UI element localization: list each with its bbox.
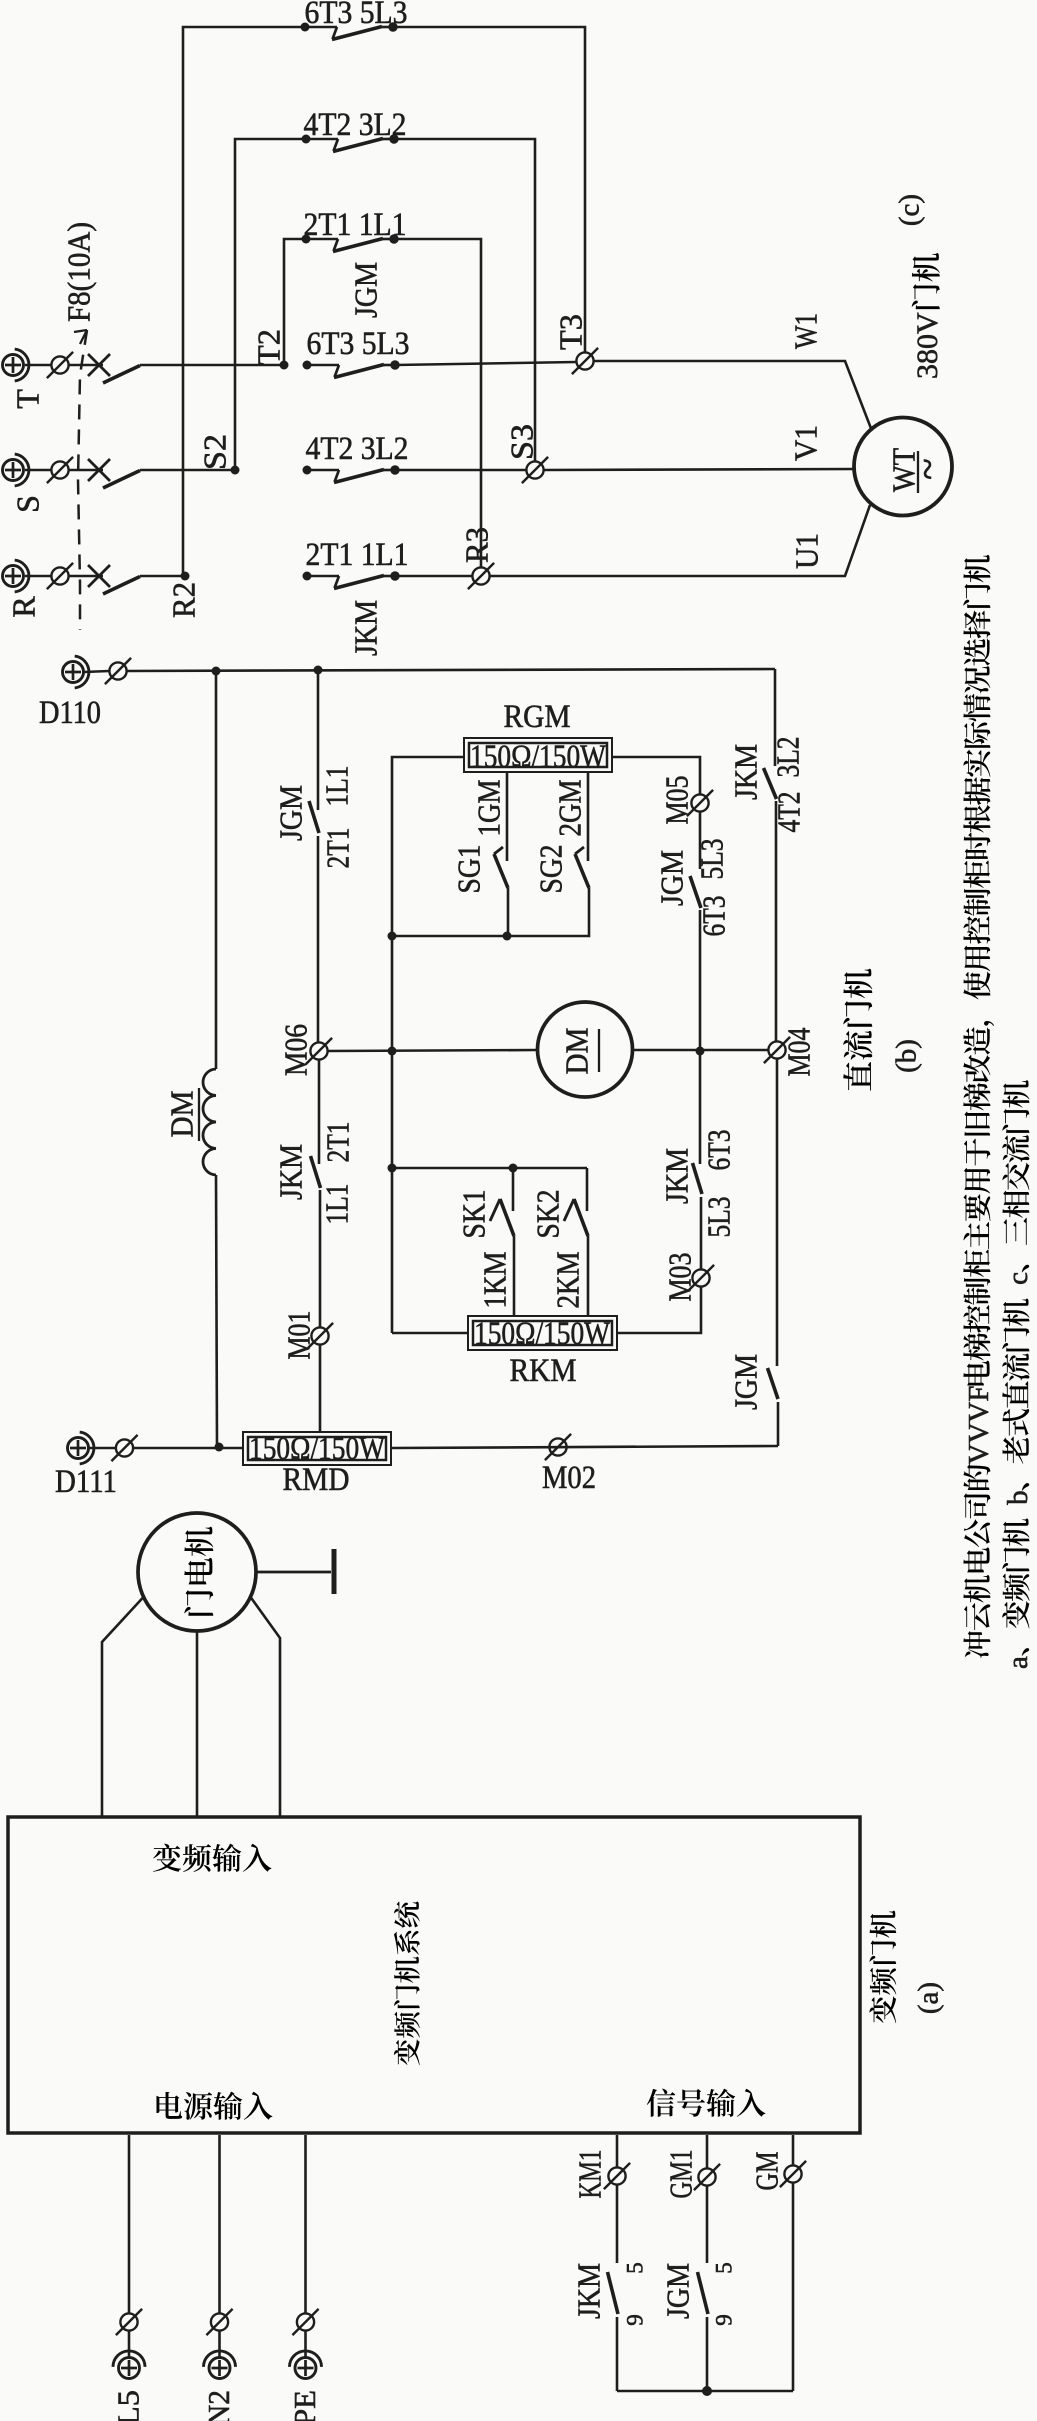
label 2T1 1L1 loop3 [304, 207, 407, 243]
wire [25, 364, 51, 367]
label RMD [283, 1462, 350, 1498]
wire D110 bus [84, 671, 109, 672]
label JGM sig [660, 2263, 696, 2319]
svg-text:S: S [10, 495, 46, 513]
svg-text:U1: U1 [789, 533, 825, 569]
label 5 b [712, 2262, 737, 2274]
label system [394, 1902, 420, 2066]
wire KM1 [616, 2135, 619, 2167]
svg-text:M04: M04 [781, 1028, 817, 1077]
label JKM right [728, 744, 764, 800]
node [388, 932, 397, 941]
terminal GM [780, 2161, 806, 2187]
label JGM loop3 [348, 262, 384, 318]
label 4T2 [771, 792, 807, 833]
svg-text:5: 5 [623, 2262, 648, 2274]
svg-text:(b): (b) [891, 1039, 923, 1073]
svg-text:5L3: 5L3 [701, 1197, 737, 1238]
svg-text:1GM: 1GM [471, 780, 507, 837]
label DC door machine [843, 969, 872, 1091]
caption line2 [1002, 1080, 1034, 1669]
underline WT [917, 451, 919, 493]
svg-text:M01: M01 [281, 1311, 317, 1360]
svg-text:T3: T3 [553, 314, 589, 350]
wire bottom bus R [391, 1446, 778, 1448]
wire lead right [251, 1597, 281, 1817]
svg-text:R: R [6, 596, 42, 618]
wire left vert low [216, 1175, 217, 1447]
label (b) [891, 1039, 923, 1073]
svg-text:2KM: 2KM [550, 1252, 586, 1309]
svg-text:6T3 5L3: 6T3 5L3 [307, 326, 410, 362]
wire [25, 575, 51, 578]
wire [317, 836, 320, 1043]
terminal R3 [468, 563, 494, 589]
node [314, 666, 323, 675]
wire bottom bus L [134, 1447, 243, 1450]
node [215, 1443, 224, 1452]
terminal slash L5 [116, 2309, 142, 2335]
wire L5 [128, 2135, 131, 2313]
label xinhao shuru [647, 2089, 766, 2117]
linkage F8 dashed [78, 330, 87, 630]
svg-text:D110: D110 [39, 695, 101, 731]
svg-text:6T3: 6T3 [701, 1130, 737, 1171]
svg-text:2GM: 2GM [552, 780, 588, 837]
wire [616, 2317, 619, 2391]
label door motor [184, 1527, 213, 1616]
terminal M02 [545, 1434, 571, 1460]
node [388, 1164, 397, 1173]
breaker lever [103, 577, 140, 595]
wire signal rail [617, 2390, 793, 2393]
contact JGM blade bot [768, 1368, 779, 1399]
wire GM [792, 2135, 795, 2165]
svg-text:JGM: JGM [273, 785, 309, 841]
label S3 [504, 424, 540, 460]
svg-text:3L2: 3L2 [770, 737, 806, 778]
terminal R [3, 560, 29, 592]
label M04 [781, 1028, 817, 1077]
shaft bar [332, 1549, 337, 1594]
label V1 [788, 425, 824, 461]
label 6T3 mid [696, 896, 732, 937]
svg-text:M05: M05 [659, 776, 695, 825]
label bianpin menji [869, 1911, 896, 2023]
svg-text:JGM: JGM [728, 1354, 764, 1410]
node S2 [231, 466, 240, 475]
contact JGM blade mid [690, 876, 701, 908]
contact JKM blade [311, 1156, 321, 1188]
wire [706, 2317, 709, 2391]
wire [699, 812, 702, 869]
wire PE [304, 2135, 307, 2313]
label U1 [789, 533, 825, 569]
wire loop3b [394, 239, 481, 567]
svg-text:4T2 3L2: 4T2 3L2 [304, 107, 407, 143]
wire loop1 [183, 27, 305, 576]
contact SG1 [494, 847, 508, 888]
wire row S [140, 469, 235, 472]
label GM1 [663, 2150, 699, 2199]
motor DM [538, 1002, 633, 1097]
contact JKM blade low [693, 1163, 703, 1194]
terminal slash N2 [206, 2309, 232, 2335]
contact 4T2-3L2 row S [303, 465, 400, 482]
svg-text:c: c [1002, 1272, 1034, 1299]
wire SG rail [392, 888, 589, 936]
label 2KM [550, 1252, 586, 1309]
wire [395, 575, 472, 578]
label R3 [459, 527, 495, 563]
wire [395, 469, 526, 472]
label GM [749, 2152, 785, 2191]
svg-text:RMD: RMD [283, 1462, 350, 1498]
label JKM [273, 1144, 309, 1200]
svg-text:L5: L5 [111, 2390, 146, 2421]
label JKM sig [571, 2263, 607, 2319]
label dianyuan shuru [156, 2092, 272, 2120]
label 4T2 3L2 rowS [306, 431, 409, 467]
box VVVF system [8, 1817, 860, 2133]
wire row R [140, 575, 185, 578]
contact JKM blade sig [608, 2272, 619, 2314]
contact SG2 [575, 847, 589, 888]
label M03 [662, 1253, 698, 1302]
wire RGM right [612, 757, 700, 794]
svg-text:4T2 3L2: 4T2 3L2 [306, 431, 409, 467]
svg-text:RKM: RKM [510, 1353, 577, 1389]
terminal slash [47, 563, 73, 589]
label PE [287, 2390, 322, 2421]
svg-text:SG2: SG2 [533, 845, 569, 894]
label N2 [201, 2390, 236, 2421]
svg-text:2T1: 2T1 [320, 828, 356, 869]
terminal slash [47, 352, 73, 378]
terminal M06 [306, 1038, 332, 1064]
label D110 [39, 695, 101, 731]
label M06 [278, 1024, 314, 1076]
label 1L1 [319, 766, 355, 807]
wire RGM left [392, 757, 464, 1333]
wire [69, 575, 103, 578]
wire top bus [127, 669, 775, 671]
label 1GM [471, 780, 507, 837]
wire [69, 364, 103, 367]
label 5L3 low [701, 1197, 737, 1238]
svg-text:380V: 380V [911, 312, 944, 379]
wire [775, 801, 778, 1041]
terminal M01 [307, 1323, 333, 1349]
svg-text:1L1: 1L1 [319, 1184, 355, 1225]
svg-text:GM1: GM1 [663, 2150, 699, 2199]
wire DM line L [328, 1050, 537, 1051]
svg-text:5L3: 5L3 [694, 839, 730, 880]
wire [89, 1447, 115, 1450]
terminal slash D111 [111, 1435, 137, 1461]
wire lead left [102, 1597, 144, 1817]
arrow to F8 [74, 330, 87, 344]
label JKM rowR [348, 600, 384, 656]
wire loop2b [394, 139, 535, 461]
svg-text:R2: R2 [166, 582, 202, 618]
svg-text:JGM: JGM [660, 2263, 696, 2319]
label RKM value [474, 1316, 611, 1352]
breaker lever [103, 366, 140, 384]
label T3 [553, 314, 589, 350]
svg-text:VVVF: VVVF [963, 1386, 995, 1465]
motor WT [854, 418, 952, 516]
wire [318, 1060, 321, 1164]
breaker contact X [88, 565, 110, 587]
svg-text:6T3 5L3: 6T3 5L3 [305, 0, 408, 31]
label WT [886, 448, 922, 492]
svg-text:~: ~ [905, 458, 950, 480]
terminal M04 [764, 1037, 790, 1063]
terminal slash PE [292, 2309, 318, 2335]
node T2 [280, 361, 289, 370]
label RKM [510, 1353, 577, 1389]
svg-text:V1: V1 [788, 425, 824, 461]
wire SK2 lead [586, 1168, 589, 1211]
label RMD value [249, 1431, 386, 1467]
label JGM mid [654, 850, 690, 906]
label JGM bot [728, 1354, 764, 1410]
label T [10, 389, 46, 409]
breaker contact X [88, 459, 110, 481]
contact JGM blade [309, 801, 319, 833]
label F8(10A) [61, 222, 97, 322]
svg-text:M06: M06 [278, 1024, 314, 1076]
label DM [559, 1028, 595, 1075]
label 1KM [477, 1252, 513, 1309]
svg-text:DM: DM [164, 1091, 200, 1138]
wire right vert top [774, 669, 777, 766]
svg-text:GM: GM [749, 2152, 785, 2191]
node [212, 667, 221, 676]
contact 6T3-5L3 loop1 [301, 22, 398, 39]
label 4T2 3L2 loop2 [304, 107, 407, 143]
svg-text:JKM: JKM [659, 1148, 695, 1204]
svg-text:T2: T2 [251, 329, 287, 365]
wire [792, 2183, 795, 2391]
contact JKM blade right [764, 768, 777, 799]
terminal PE [290, 2351, 322, 2379]
svg-text:KM1: KM1 [572, 2150, 608, 2199]
contact JGM blade sig [698, 2272, 709, 2314]
label W1 [788, 313, 824, 349]
svg-text:W1: W1 [788, 313, 824, 349]
label 2T1 [320, 828, 356, 869]
label SK1 [456, 1190, 492, 1239]
label R2 [166, 582, 202, 618]
resistor RKM box [468, 1316, 617, 1350]
terminal L5 [113, 2351, 145, 2379]
wire RKM left [392, 1332, 468, 1335]
wire [319, 1190, 322, 1327]
label 2T1 b [320, 1122, 356, 1163]
breaker lever [103, 471, 140, 489]
svg-text:JKM: JKM [348, 600, 384, 656]
svg-text:S2: S2 [197, 434, 233, 470]
terminal T [3, 349, 29, 381]
wire loop3 [284, 239, 306, 365]
label 9 a [623, 2314, 648, 2326]
wire GM1 [706, 2135, 709, 2168]
label 6T3 5L3 rowT [307, 326, 410, 362]
svg-text:N2: N2 [201, 2390, 236, 2421]
terminal KM1 [604, 2163, 630, 2189]
node [696, 1047, 705, 1056]
label JGM [273, 785, 309, 841]
shaft [256, 1571, 331, 1574]
label 9 b [712, 2314, 737, 2326]
svg-text:PE: PE [287, 2390, 322, 2421]
contact JGM 2T1-1L1 loop3 [302, 234, 399, 251]
wire left vert [215, 671, 218, 1069]
svg-text:F8(10A): F8(10A) [61, 222, 97, 322]
wire N2 [218, 2135, 221, 2313]
label 5 a [623, 2262, 648, 2274]
wire [776, 1059, 779, 1366]
svg-text:9: 9 [623, 2314, 648, 2326]
terminal slash [47, 457, 73, 483]
terminal D111 [68, 1432, 94, 1464]
label 6T3 low [701, 1130, 737, 1171]
contact JKM 2T1-1L1 row R [303, 571, 400, 588]
wire U1 [490, 505, 870, 576]
svg-text:1KM: 1KM [477, 1252, 513, 1309]
label 2T1 1L1 rowR [306, 537, 409, 573]
svg-text:JKM: JKM [273, 1144, 309, 1200]
svg-text:SG1: SG1 [451, 845, 487, 894]
terminal S [3, 454, 29, 486]
label DM coil [164, 1091, 200, 1138]
wire [617, 1287, 701, 1333]
wire [699, 910, 702, 1051]
svg-text:JGM: JGM [654, 850, 690, 906]
wire SK rail [392, 1167, 587, 1170]
node [509, 1164, 518, 1173]
wire [700, 1197, 703, 1269]
svg-text:SK1: SK1 [456, 1190, 492, 1239]
terminal slash D110 [105, 658, 131, 684]
underline DM [598, 1029, 600, 1072]
terminal T3 [572, 348, 598, 374]
wire [699, 1051, 702, 1164]
svg-text:JKM: JKM [728, 744, 764, 800]
contact SK2 [564, 1199, 588, 1236]
svg-text:SK2: SK2 [530, 1190, 566, 1239]
label RGM [504, 699, 571, 735]
label KM1 [572, 2150, 608, 2199]
resistor RGM box [464, 738, 612, 772]
svg-text:150Ω/150W: 150Ω/150W [470, 739, 607, 775]
wire V1 [544, 469, 856, 470]
svg-text:2T1: 2T1 [320, 1122, 356, 1163]
label M01 [281, 1311, 317, 1360]
label S2 [197, 434, 233, 470]
label L5 [111, 2390, 146, 2421]
label 2GM [552, 780, 588, 837]
motor door [138, 1513, 256, 1631]
wire [513, 1236, 516, 1317]
contact SK1 [490, 1199, 514, 1236]
wire [319, 1345, 322, 1432]
label D111 [55, 1464, 117, 1500]
terminal M03 [688, 1265, 714, 1291]
label 3L2 [770, 737, 806, 778]
label R [6, 596, 42, 618]
contact JGM 6T3-5L3 row T [303, 360, 400, 377]
wire [587, 1236, 590, 1317]
terminal M05 [687, 790, 713, 816]
label bianpin shuru [153, 1844, 272, 1872]
label 380V men-ji [911, 253, 944, 379]
terminal D110 [63, 656, 89, 688]
svg-text:a: a [1002, 1656, 1034, 1669]
wire [777, 1402, 780, 1446]
label JKM low [659, 1148, 695, 1204]
wire SG1 lead [506, 772, 509, 861]
label SG2 [533, 845, 569, 894]
svg-text:1L1: 1L1 [319, 766, 355, 807]
wire [69, 469, 103, 472]
node [388, 1047, 397, 1056]
wire [317, 670, 320, 810]
label SK2 [530, 1190, 566, 1239]
label SG1 [451, 845, 487, 894]
svg-text:b: b [1002, 1490, 1034, 1519]
node [702, 2386, 712, 2396]
wire [616, 2185, 619, 2263]
terminal N2 [204, 2351, 236, 2379]
wire [395, 362, 576, 365]
inductor DM [203, 1069, 216, 1175]
wire PE b [304, 2331, 307, 2357]
node R2 [181, 572, 190, 581]
svg-text:(c): (c) [894, 194, 926, 226]
wire SG2 lead [587, 772, 590, 861]
resistor RMD box [243, 1432, 391, 1465]
wire loop2 [235, 139, 306, 470]
svg-text:5: 5 [712, 2262, 737, 2274]
label 1L1 b [319, 1184, 355, 1225]
wire [507, 888, 510, 936]
svg-text:R3: R3 [459, 527, 495, 563]
label 6T3 5L3 loop1 [305, 0, 408, 31]
wire L5 b [128, 2331, 131, 2357]
terminal S3 [522, 457, 548, 483]
svg-text:2T1 1L1: 2T1 1L1 [306, 537, 409, 573]
terminal GM1 [694, 2164, 720, 2190]
svg-text:JGM: JGM [348, 262, 384, 318]
svg-text:150Ω/150W: 150Ω/150W [474, 1316, 611, 1352]
svg-text:DM: DM [559, 1028, 595, 1075]
label tilde [905, 458, 950, 480]
wire [706, 2186, 709, 2263]
wire N2 b [218, 2331, 221, 2357]
wire loop1b [393, 27, 585, 352]
caption line1 [963, 555, 995, 1658]
label M05 [659, 776, 695, 825]
contact 4T2-3L2 loop2 [302, 134, 399, 151]
svg-text:D111: D111 [55, 1464, 117, 1500]
wire lead mid [196, 1631, 199, 1817]
label S [10, 495, 46, 513]
underline DM coil [198, 1088, 200, 1141]
label (a) [913, 1982, 945, 2014]
